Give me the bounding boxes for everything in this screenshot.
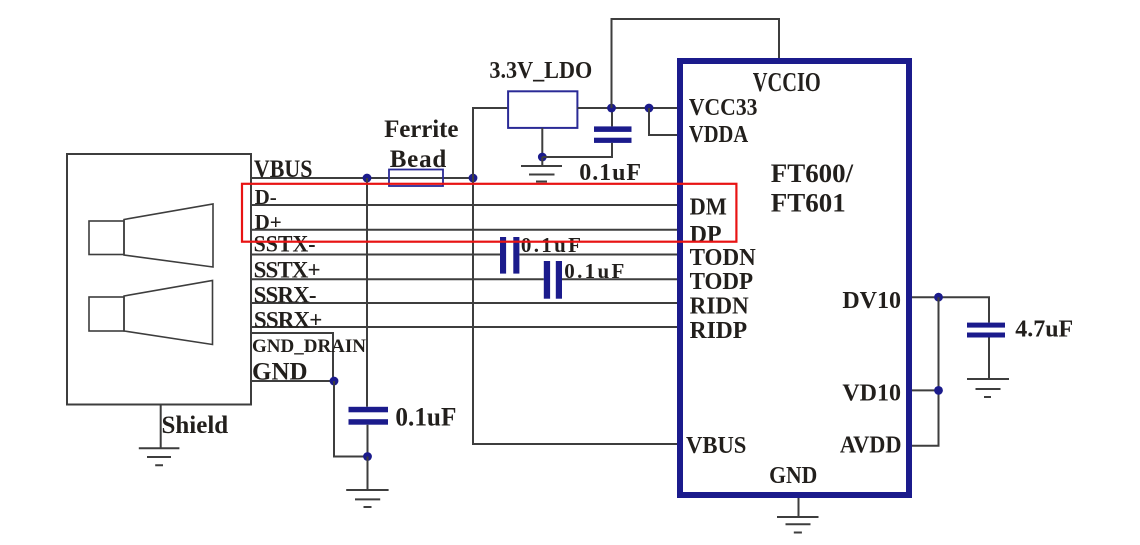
svg-text:TODN: TODN (690, 245, 757, 271)
svg-text:RIDN: RIDN (690, 293, 750, 319)
node junction VD10 (934, 386, 943, 395)
svg-text:GND: GND (252, 358, 308, 385)
wire D- (251, 204, 680, 206)
svg-text:D-: D- (255, 185, 277, 209)
svg-text:TODP: TODP (690, 269, 754, 295)
node junction VDDA branch (645, 104, 654, 113)
node junction LDO ground (538, 153, 547, 162)
ground C4 (346, 457, 388, 508)
capacitor C5 4.7uF plates (967, 323, 1005, 328)
capacitor C2 0.1uF series plates (500, 237, 506, 274)
USB connector plug 1 square (89, 221, 124, 255)
wire GND_DRAIN (251, 333, 333, 381)
wire VBUS to chip pin (473, 178, 680, 444)
wire SSTX- right to TODN (519, 254, 680, 256)
svg-text:DV10: DV10 (842, 288, 901, 314)
USB connector J1 shell (67, 154, 251, 405)
wire SSRX+ (251, 326, 680, 328)
capacitor C1 0.1uF plates (594, 126, 632, 131)
wire VBUS to LDO input (473, 108, 508, 178)
wire SSTX+ right to TODP (562, 278, 680, 280)
svg-text:D+: D+ (255, 210, 282, 234)
USB connector plug 2 trapezoid (124, 281, 213, 345)
ground LDO (521, 157, 562, 182)
node junction VCC33 (607, 104, 616, 113)
node junction DV10 (934, 293, 943, 302)
wire DV10 to capacitor C5 (912, 297, 989, 322)
highlight box DM DP (242, 184, 736, 242)
node junction GND (330, 377, 339, 386)
svg-text:SSRX+: SSRX+ (254, 308, 323, 333)
svg-text:VCC33: VCC33 (689, 95, 758, 121)
svg-text:FT601: FT601 (771, 188, 846, 217)
ferrite bead FB1 (389, 170, 443, 187)
svg-text:DM: DM (690, 195, 727, 221)
svg-text:SSTX+: SSTX+ (254, 258, 321, 283)
wire chip GND stem (798, 498, 800, 517)
node junction C4 ground (363, 452, 372, 461)
ground shield (139, 405, 180, 466)
svg-text:3.3V_LDO: 3.3V_LDO (489, 58, 592, 84)
svg-text:0.1uF: 0.1uF (395, 403, 456, 432)
wire GND drop (334, 381, 368, 457)
svg-text:VBUS: VBUS (686, 433, 746, 459)
svg-text:SSRX-: SSRX- (254, 282, 317, 307)
wire VDDA branch (649, 108, 680, 135)
wire LDO ground stem (541, 128, 543, 157)
wire capacitor C1 bottom to ground net (542, 143, 612, 157)
wire capacitor C4 bottom (367, 425, 369, 457)
svg-text:VBUS: VBUS (254, 156, 313, 183)
svg-text:VCCIO: VCCIO (753, 67, 821, 97)
wire DV10 to AVDD vertical (912, 297, 939, 446)
capacitor C4 0.1uF plates (349, 407, 389, 413)
wire VBUS capacitor drop (366, 178, 368, 407)
wire SSTX- left (251, 254, 500, 256)
wire D+ (251, 229, 680, 231)
wire SSTX+ left (251, 278, 544, 280)
svg-text:GND: GND (769, 463, 817, 489)
svg-text:Shield: Shield (162, 412, 229, 439)
ground C5 (967, 379, 1009, 397)
svg-text:AVDD: AVDD (840, 432, 902, 458)
svg-text:0.1uF: 0.1uF (521, 233, 581, 257)
svg-text:Ferrite: Ferrite (384, 116, 458, 143)
wire VCCIO top loop (612, 19, 780, 108)
node junction VBUS-LDO (469, 174, 478, 183)
capacitor C3 0.1uF series plates (544, 261, 550, 299)
svg-text:RIDP: RIDP (690, 318, 748, 344)
chip U1 FT600/FT601 box (680, 61, 909, 495)
wire LDO output to VCC33 pin (577, 107, 680, 109)
USB connector plug 2 square (89, 297, 124, 331)
svg-text:GND_DRAIN: GND_DRAIN (252, 336, 366, 357)
svg-text:SSTX-: SSTX- (254, 231, 316, 256)
svg-text:FT600/: FT600/ (771, 159, 854, 188)
svg-text:0.1uF: 0.1uF (579, 160, 641, 186)
USB connector plug 1 trapezoid (124, 204, 213, 267)
wire capacitor C1 top (611, 108, 613, 126)
wire VD10 (912, 389, 939, 391)
node junction VBUS-cap (363, 174, 372, 183)
regulator U2 3.3V_LDO box (508, 91, 577, 128)
svg-text:4.7uF: 4.7uF (1015, 317, 1073, 343)
wire VBUS (251, 177, 473, 179)
wire GND (251, 380, 333, 382)
ground chip GND (777, 517, 819, 533)
svg-text:Bead: Bead (390, 146, 447, 173)
wire SSRX- (251, 302, 680, 304)
wire capacitor C5 bottom (988, 338, 990, 380)
svg-text:VD10: VD10 (842, 381, 901, 407)
svg-text:VDDA: VDDA (689, 122, 749, 148)
